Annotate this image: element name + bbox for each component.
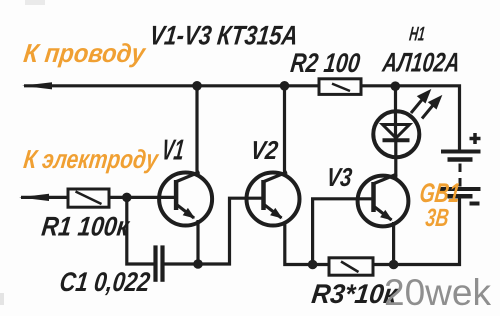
svg-text:3В: 3В [424, 204, 450, 232]
svg-text:V1: V1 [160, 135, 186, 167]
svg-text:R1 100к: R1 100к [40, 211, 132, 242]
svg-text:V1-V3 КТ315А: V1-V3 КТ315А [148, 20, 300, 51]
svg-text:V2: V2 [249, 135, 280, 165]
svg-text:К электроду: К электроду [22, 144, 161, 174]
svg-text:C1 0,022: C1 0,022 [58, 266, 152, 297]
svg-text:АЛ102А: АЛ102А [380, 47, 462, 78]
svg-text:R2 100: R2 100 [289, 47, 362, 78]
svg-text:Н1: Н1 [408, 24, 426, 46]
svg-text:20wek: 20wek [384, 272, 492, 313]
svg-text:V3: V3 [325, 162, 354, 192]
svg-text:К проводу: К проводу [22, 38, 148, 68]
